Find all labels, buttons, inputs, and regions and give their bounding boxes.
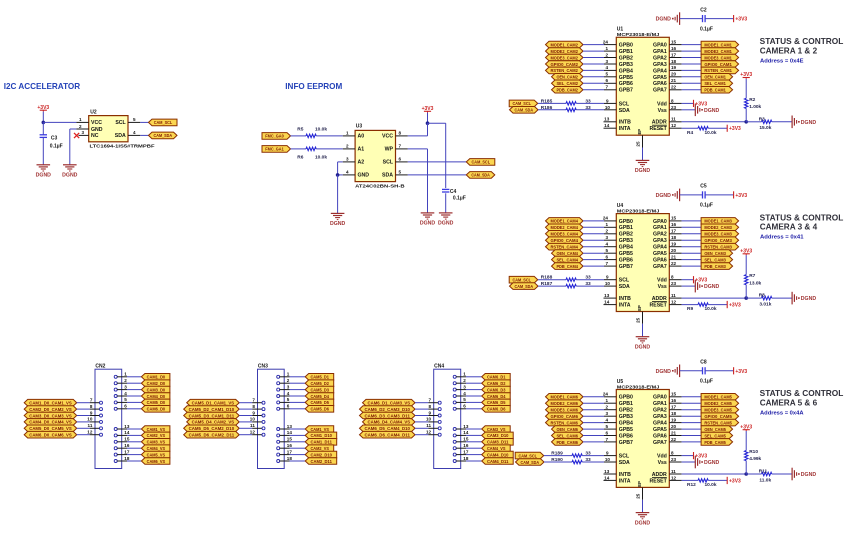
svg-text:4: 4 (605, 65, 608, 70)
net label GPIO0_CAM3 (701, 237, 739, 244)
svg-text:GPIO0_CAM2: GPIO0_CAM2 (550, 62, 578, 67)
net label OEN_CAM2 (552, 74, 584, 81)
power +3V3 (U3) (422, 106, 434, 113)
svg-text:MODE1_CAM1: MODE1_CAM1 (704, 42, 732, 47)
wire (538, 279, 566, 281)
resistor R185 labels (541, 98, 591, 104)
svg-text:21: 21 (671, 78, 677, 83)
U4 pin 20 GPA5 (669, 252, 681, 254)
junction VCC node U3 (426, 121, 430, 125)
svg-text:6: 6 (287, 404, 290, 409)
svg-text:15: 15 (124, 437, 130, 442)
resistor R187 33 (566, 284, 576, 287)
net label CAM2_D0 (141, 380, 170, 387)
svg-text:RSTEN_CAM2: RSTEN_CAM2 (550, 68, 578, 73)
svg-text:5: 5 (605, 424, 608, 429)
svg-text:CAM1_VS: CAM1_VS (147, 427, 166, 432)
svg-text:GPB3: GPB3 (619, 238, 633, 244)
ground DGND (R3) (792, 116, 816, 129)
svg-text:Vss: Vss (658, 284, 667, 290)
svg-text:MODE3_CAM6: MODE3_CAM6 (550, 408, 578, 413)
U3 right pins (396, 136, 408, 175)
svg-text:CAM3_D0_CAM3_VS: CAM3_D0_CAM3_VS (29, 413, 72, 418)
svg-text:8: 8 (671, 275, 674, 280)
IC U5 refdes (617, 379, 660, 391)
svg-text:12: 12 (426, 430, 432, 435)
net label OEN_CAM3 (701, 250, 733, 257)
svg-text:10: 10 (605, 281, 611, 286)
U4 pin 3 GPB3 (604, 239, 616, 241)
net label CAM6_D6 (482, 406, 511, 413)
U1 pin 22 GPA7 (669, 89, 681, 91)
CN4 pin 11 (428, 427, 441, 430)
wire (772, 297, 792, 299)
svg-text:CAM4_D0_CAM4_VS: CAM4_D0_CAM4_VS (29, 420, 72, 425)
CN4 pin 9 (428, 414, 441, 417)
svg-text:0.1µF: 0.1µF (700, 379, 713, 385)
svg-text:INFO EEPROM: INFO EEPROM (285, 81, 342, 91)
resistor R3 (762, 120, 772, 123)
svg-text:GPIO0_CAM6: GPIO0_CAM6 (550, 414, 578, 419)
U5 pin 22 GPA7 (669, 441, 681, 443)
svg-text:14: 14 (124, 430, 130, 435)
svg-text:SEL_CAM6: SEL_CAM6 (556, 433, 578, 438)
svg-text:STATUS & CONTROL: STATUS & CONTROL (760, 213, 844, 222)
svg-text:7: 7 (605, 85, 608, 90)
svg-text:U5: U5 (617, 379, 624, 385)
svg-text:MODE3_CAM1: MODE3_CAM1 (704, 55, 732, 60)
CN2 pin 12 (90, 433, 103, 436)
svg-text:DGND: DGND (801, 120, 817, 126)
svg-text:16: 16 (463, 443, 469, 448)
net label MODE2_CAM6 (546, 400, 584, 407)
U4 pin 21 GPA6 (669, 259, 681, 261)
net label CAM_SDA (U1) (510, 107, 539, 114)
svg-text:CAM_SDA: CAM_SDA (515, 108, 534, 113)
wire (576, 102, 604, 104)
wire (77, 408, 90, 410)
wire (239, 421, 252, 423)
svg-text:10.0k: 10.0k (705, 130, 717, 136)
svg-text:CAM2_D0_CAM2_VS: CAM2_D0_CAM2_VS (29, 407, 72, 412)
svg-text:I2C ACCELERATOR: I2C ACCELERATOR (4, 81, 81, 91)
CN2 pin 4 (114, 395, 127, 398)
U1 pin 21 GPA6 (669, 82, 681, 84)
svg-text:GPA7: GPA7 (653, 88, 667, 94)
net label CAM3_D10 (482, 432, 514, 439)
wire C4 to ground (445, 193, 447, 212)
net label CAM1_VS (305, 426, 334, 433)
svg-text:11: 11 (250, 423, 255, 428)
CN4 pin 8 (428, 408, 441, 411)
net label PDB_CAM4 (552, 263, 584, 270)
svg-text:3.01k: 3.01k (759, 302, 771, 308)
wire (77, 415, 90, 417)
wire (772, 473, 792, 475)
svg-text:12: 12 (671, 475, 677, 480)
wire (682, 220, 702, 222)
U1 pin 4 GPB4 (604, 69, 616, 71)
svg-text:10: 10 (605, 105, 611, 110)
net label PDB_CAM6 (552, 439, 584, 446)
net label SEL_CAM4 (552, 256, 584, 263)
wire U2 GND down (69, 129, 71, 165)
CN4 pin 6 (453, 407, 466, 410)
svg-text:R9: R9 (687, 306, 693, 312)
wire (127, 376, 141, 378)
U1 pin 19 GPA4 (669, 69, 681, 71)
ground DGND (U1 pad) (635, 160, 651, 174)
svg-text:ADDR: ADDR (652, 296, 667, 302)
svg-text:DGND: DGND (801, 472, 817, 478)
svg-text:17: 17 (287, 449, 293, 454)
net label MODE2_CAM5 (701, 400, 739, 407)
svg-text:GPB1: GPB1 (619, 401, 633, 407)
wire (239, 408, 252, 410)
resistor R7 (745, 275, 748, 285)
svg-text:GPA4: GPA4 (653, 421, 667, 427)
svg-text:GPB2: GPB2 (619, 232, 633, 238)
wire (583, 402, 604, 404)
svg-text:SCL: SCL (383, 160, 394, 166)
U5 pin 8 Vdd (669, 455, 681, 457)
svg-text:C4: C4 (450, 189, 457, 195)
svg-text:10.0k: 10.0k (315, 154, 327, 160)
wire (127, 454, 141, 456)
U4 pin 5 GPB5 (604, 252, 616, 254)
svg-text:OEN_CAM3: OEN_CAM3 (704, 251, 726, 256)
wire (583, 265, 604, 267)
wire R6 to U3 A1 (316, 148, 343, 150)
net label MODE3_CAM3 (701, 231, 739, 238)
svg-text:NC: NC (91, 133, 99, 139)
svg-text:Address = 0x4A: Address = 0x4A (760, 411, 804, 417)
svg-text:DGND: DGND (438, 221, 454, 227)
wire (682, 435, 702, 437)
wire (682, 409, 702, 411)
power +3V3 (U2) (37, 105, 49, 112)
svg-text:MODE1_CAM2: MODE1_CAM2 (550, 42, 578, 47)
connector CN4 body (434, 369, 461, 468)
svg-text:SDA: SDA (619, 460, 630, 466)
svg-text:16: 16 (287, 443, 293, 448)
net label CAM_SDA (U5) (516, 459, 545, 466)
wire (544, 455, 572, 457)
net label OEN_CAM6 (552, 426, 584, 433)
svg-text:C3: C3 (51, 136, 58, 142)
CN2 pin 2 (114, 382, 127, 385)
U4 pin 8 Vdd (669, 279, 681, 281)
pin name RESET (active low) (650, 302, 668, 309)
svg-text:11: 11 (671, 469, 676, 474)
wire (466, 428, 482, 430)
U2 pin 5 (128, 121, 140, 123)
svg-text:PDB_CAM4: PDB_CAM4 (556, 264, 578, 269)
svg-text:CAM2_VS: CAM2_VS (310, 446, 329, 451)
wire (708, 479, 727, 481)
svg-text:3: 3 (605, 59, 608, 64)
U4 pin 9 SCL (604, 279, 616, 281)
U1 pin 14 INTA (604, 127, 617, 129)
svg-text:CAM4_D0: CAM4_D0 (147, 394, 166, 399)
svg-text:11: 11 (671, 293, 676, 298)
CN4 pin 1 (453, 375, 466, 378)
CN3 pin 15 (277, 440, 290, 443)
svg-text:CAM5_D3_CAM1_D11: CAM5_D3_CAM1_D11 (189, 413, 235, 418)
wire (415, 402, 428, 404)
svg-text:14: 14 (463, 430, 469, 435)
svg-text:21: 21 (671, 254, 677, 259)
svg-text:CN2: CN2 (95, 363, 105, 369)
U2 pin 2 (76, 128, 88, 130)
U1 pin 25 exposed pad (642, 135, 644, 147)
net label RSTEN_CAM1 (701, 67, 739, 74)
svg-text:15: 15 (463, 437, 469, 442)
U2 pin 3 (79, 134, 89, 136)
svg-text:RESET: RESET (650, 126, 668, 132)
power +3V3 (C2) (734, 15, 748, 23)
net label RSTEN_CAM3 (701, 243, 739, 250)
svg-text:GPB6: GPB6 (619, 81, 633, 87)
net label CAM_SCL (U2) (149, 119, 178, 126)
net label CAM5_D6 (305, 406, 334, 413)
pin name RESET (active low) (650, 125, 668, 132)
svg-text:25: 25 (636, 493, 641, 499)
svg-text:0.1µF: 0.1µF (453, 195, 466, 201)
wire R7 to ADDR node (745, 285, 747, 298)
svg-text:CAM3_D0: CAM3_D0 (147, 387, 166, 392)
power +3V3 (Vdd U4) (694, 276, 708, 284)
svg-text:PDB_CAM3: PDB_CAM3 (704, 264, 726, 269)
svg-text:18: 18 (463, 456, 469, 461)
resistor R9 labels (687, 306, 717, 312)
svg-text:20: 20 (671, 248, 677, 253)
net label MODE1_CAM5 (701, 394, 739, 401)
wire (290, 460, 306, 462)
wire (466, 382, 482, 384)
U1 pin 3 GPB3 (604, 63, 616, 65)
svg-text:VCC: VCC (91, 120, 102, 126)
net label SEL_CAM6 (552, 432, 584, 439)
junction ADDR node (744, 296, 748, 300)
power +3V3 (R9) (727, 301, 741, 309)
svg-text:EP: EP (637, 481, 642, 487)
U1 pin 13 INTB (604, 121, 617, 123)
wire (77, 434, 90, 436)
net label CAM5_D1 (305, 374, 334, 381)
svg-text:10: 10 (605, 457, 611, 462)
svg-text:CN3: CN3 (258, 363, 268, 369)
net label CAM3_D0_CAM3_VS (24, 412, 76, 419)
net label CAM2_D11 (305, 458, 337, 465)
svg-text:R4: R4 (687, 130, 693, 136)
CN3 pin 3 (277, 388, 290, 391)
svg-text:RESET: RESET (650, 302, 668, 308)
svg-text:OEN_CAM6: OEN_CAM6 (556, 427, 578, 432)
svg-text:16: 16 (671, 398, 677, 403)
resistor R12 (698, 479, 708, 482)
svg-text:2: 2 (605, 52, 608, 57)
wire (290, 401, 306, 403)
net label MODE2_CAM2 (546, 48, 584, 55)
svg-text:CAM_SCL: CAM_SCL (518, 453, 537, 458)
CN4 pin 13 (453, 428, 466, 431)
wire (705, 18, 734, 20)
U5 pin 10 SDA (604, 461, 616, 463)
svg-text:GPA2: GPA2 (653, 232, 667, 238)
svg-text:5: 5 (124, 397, 127, 402)
wire (576, 285, 604, 287)
svg-text:GPIO0_CAM1: GPIO0_CAM1 (704, 62, 732, 67)
svg-text:17: 17 (124, 449, 130, 454)
U4 pin 15 GPA0 (669, 220, 681, 222)
svg-text:14: 14 (287, 430, 293, 435)
net label CAM5_D0_CAM5_VS (24, 425, 76, 432)
title STATUS & CONTROL 5 & 6 (760, 389, 844, 407)
U5 pin 21 GPA6 (669, 435, 681, 437)
net label CAM3_D11 (482, 439, 514, 446)
svg-text:GPA0: GPA0 (653, 219, 667, 225)
svg-text:STATUS & CONTROL: STATUS & CONTROL (760, 389, 844, 398)
svg-text:GPB2: GPB2 (619, 55, 633, 61)
net label CAM1_D10 (305, 432, 337, 439)
net label MODE1_CAM2 (546, 41, 584, 48)
resistor R2 labels (749, 97, 761, 110)
svg-text:GPB5: GPB5 (619, 427, 633, 433)
wire SCL to tag (140, 121, 148, 123)
U1 pin 12 RESET (669, 127, 681, 129)
U1 pin 1 GPB1 (604, 50, 616, 52)
U4 pin 10 SDA (604, 285, 616, 287)
CN4 pin 16 (453, 447, 466, 450)
svg-text:MODE2_CAM6: MODE2_CAM6 (550, 401, 578, 406)
svg-text:SEL_CAM1: SEL_CAM1 (704, 81, 726, 86)
svg-text:MODE1_CAM3: MODE1_CAM3 (704, 219, 732, 224)
svg-text:SCL: SCL (115, 120, 126, 126)
resistor R5 (306, 134, 316, 137)
resistor R5 labels (297, 127, 327, 133)
ground DGND (C3) (36, 165, 52, 179)
net label CAM6_D3 (482, 386, 511, 393)
wire U2 GND (70, 128, 77, 130)
wire (290, 454, 306, 456)
svg-text:CAM_SCL: CAM_SCL (512, 101, 531, 106)
wire (127, 382, 141, 384)
wire (680, 370, 703, 372)
net label SEL_CAM1 (701, 80, 733, 87)
resistor R190 labels (551, 457, 591, 463)
wire (682, 415, 702, 417)
CN3 pin 1 (277, 375, 290, 378)
CN2 pin 9 (90, 414, 103, 417)
svg-text:GPA4: GPA4 (653, 245, 667, 251)
power +3V3 (R12) (727, 477, 741, 485)
net label CAM5_D6_CAM2_D11 (184, 431, 240, 438)
U5 pin 14 INTA (604, 479, 617, 481)
svg-text:CAM6_D1_CAM3_VS: CAM6_D1_CAM3_VS (368, 401, 411, 406)
wire (290, 376, 306, 378)
CN2 pin 5 (114, 401, 127, 404)
svg-text:4: 4 (463, 391, 466, 396)
svg-text:CAM_SDA: CAM_SDA (154, 133, 173, 138)
svg-text:CAM_SCL: CAM_SCL (472, 160, 491, 165)
resistor R10 (745, 451, 748, 461)
svg-text:+3V3: +3V3 (729, 303, 741, 309)
svg-text:Address = 0x41: Address = 0x41 (760, 235, 804, 241)
svg-text:GPB2: GPB2 (619, 408, 633, 414)
svg-text:FMC_GA0: FMC_GA0 (265, 134, 284, 139)
CN2 pin 17 (114, 453, 127, 456)
svg-text:18: 18 (671, 411, 677, 416)
svg-text:9: 9 (606, 275, 609, 280)
CN4 pin 12 (428, 433, 441, 436)
svg-text:19: 19 (671, 65, 677, 70)
U4 pin 19 GPA4 (669, 246, 681, 248)
net label CAM_SCL (U5) (515, 452, 544, 459)
wire (682, 239, 702, 241)
wire +3V3 down U3 (427, 113, 429, 124)
resistor R188 33 (566, 278, 576, 281)
svg-text:13.0k: 13.0k (749, 280, 761, 286)
wire (576, 109, 604, 111)
wire (746, 121, 761, 123)
U4 pin 24 GPB0 (604, 220, 616, 222)
svg-text:GPB5: GPB5 (619, 251, 633, 257)
svg-text:4: 4 (605, 417, 608, 422)
wire (583, 415, 604, 417)
resistor R11 (762, 472, 772, 475)
svg-text:5: 5 (133, 117, 136, 122)
CN3 pin 9 (252, 414, 265, 417)
svg-text:9: 9 (252, 410, 255, 415)
CN3 pin 11 (252, 427, 265, 430)
svg-text:CAM6_D2: CAM6_D2 (487, 381, 506, 386)
svg-text:19: 19 (671, 417, 677, 422)
svg-text:CAM6_D0: CAM6_D0 (147, 407, 166, 412)
svg-text:GPB1: GPB1 (619, 49, 633, 55)
svg-text:3: 3 (124, 384, 127, 389)
wire (682, 304, 698, 306)
svg-text:2: 2 (287, 378, 290, 383)
CN4 pin 15 (453, 440, 466, 443)
svg-text:9: 9 (90, 410, 93, 415)
svg-text:GPIO0_CAM5: GPIO0_CAM5 (704, 414, 732, 419)
svg-text:GPB4: GPB4 (619, 245, 633, 251)
svg-text:11: 11 (88, 423, 93, 428)
svg-text:CAM5_VS: CAM5_VS (147, 452, 166, 457)
wire (583, 226, 604, 228)
net label MODE1_CAM6 (546, 394, 584, 401)
power +3V3 (R10) (740, 424, 752, 431)
svg-text:A0: A0 (358, 134, 365, 140)
svg-text:10.0k: 10.0k (315, 127, 327, 133)
svg-text:3: 3 (81, 130, 84, 135)
CN3 pin 12 (252, 433, 265, 436)
resistor R187 labels (541, 281, 591, 287)
U4 pin 18 GPA3 (669, 239, 681, 241)
wire (239, 402, 252, 404)
svg-text:CAMERA 3 & 4: CAMERA 3 & 4 (760, 223, 818, 232)
svg-text:DGND: DGND (656, 193, 672, 199)
net label PDB_CAM3 (701, 263, 733, 270)
U1 pin 6 GPB6 (604, 82, 616, 84)
wire (682, 279, 694, 281)
svg-text:DGND: DGND (801, 296, 817, 302)
wire (127, 441, 141, 443)
svg-text:5: 5 (287, 397, 290, 402)
IC U5 MCP23018 body (616, 390, 669, 488)
U5 pin 11 ADDR (669, 473, 681, 475)
